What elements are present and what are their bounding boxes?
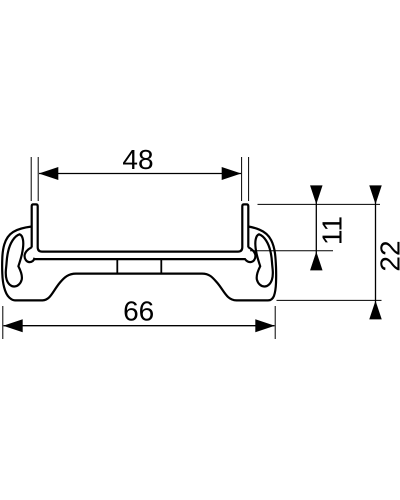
dim 48 extension line right-inner <box>241 157 243 201</box>
seam tick left <box>116 260 118 274</box>
dim 11 extension line top (y=204.4) <box>258 203 381 205</box>
dim 11 top arrow <box>310 185 323 204</box>
dim 66 extension line right <box>274 306 276 339</box>
dim 22 top arrow <box>369 185 382 204</box>
dim 22 line <box>375 186 377 317</box>
dim 48 left arrow <box>39 167 59 180</box>
dim 11 bottom arrow <box>310 252 323 271</box>
seam tick right <box>160 260 162 274</box>
dim 11 extension line bottom (y=250.7) <box>250 250 333 252</box>
dim 66 right arrow <box>255 319 274 332</box>
dim 66 extension line left <box>2 306 4 339</box>
dim 48 extension line right-outer <box>248 157 250 201</box>
dim 11 line <box>315 186 317 270</box>
dim 66 left arrow <box>3 319 23 332</box>
left hook, channel underside, right hook <box>25 247 256 262</box>
left ear cavity (comma shaped hole) <box>6 234 24 286</box>
svg-text:66: 66 <box>123 296 154 327</box>
dim 48 extension line left-outer <box>30 157 32 201</box>
svg-text:22: 22 <box>374 240 400 271</box>
outer bottom contour with ears <box>2 227 276 301</box>
dim 48 extension line left-inner <box>37 157 39 201</box>
dim 22 extension line bottom (y=300.4) <box>277 299 382 301</box>
dim 48 line <box>39 173 241 175</box>
right ear cavity (comma shaped hole, mirrored) <box>255 234 273 286</box>
svg-text:48: 48 <box>122 144 153 175</box>
channel U profile outline <box>32 204 249 251</box>
dim 48 right arrow <box>222 167 242 180</box>
dim 22 bottom arrow <box>369 301 382 320</box>
dim 66 line <box>4 325 275 327</box>
svg-text:11: 11 <box>316 216 347 245</box>
